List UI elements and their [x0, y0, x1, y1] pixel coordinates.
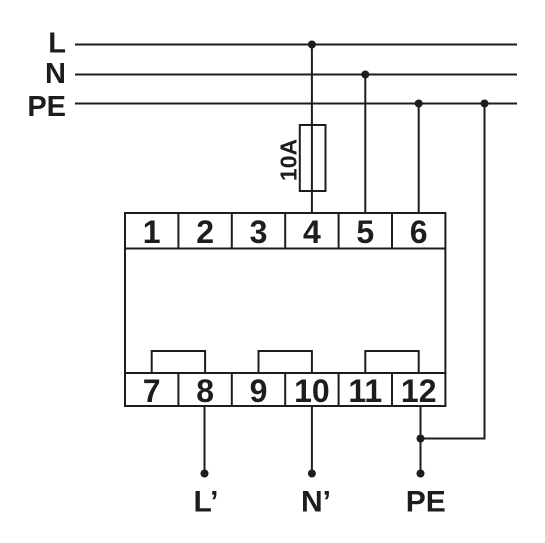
node: junction of N line and drop	[361, 71, 369, 79]
svg-text:8: 8	[196, 373, 214, 409]
terminal strip: top row frame	[125, 213, 445, 249]
wire: drop from L line through fuse to terminal 4	[311, 45, 313, 214]
svg-text:2: 2	[196, 214, 214, 250]
node: junction of L line and fuse drop	[308, 41, 316, 49]
node: junction of PE line and right-side drop	[481, 100, 489, 108]
wire: L' output stub from terminal 8	[204, 406, 206, 474]
svg-text:6: 6	[410, 214, 428, 250]
svg-text:10: 10	[294, 373, 330, 409]
wire: PE supply line	[75, 103, 517, 105]
wire: L supply line	[75, 44, 517, 46]
svg-text:L’: L’	[193, 485, 218, 518]
jumper wire terminals 9-10	[259, 351, 312, 373]
svg-text:N’: N’	[301, 485, 331, 518]
svg-text:9: 9	[250, 373, 268, 409]
wire: drop from PE line to terminal 6	[418, 104, 420, 214]
wire: drop from N line to terminal 5	[364, 75, 366, 214]
terminal strip: bottom row frame	[125, 373, 445, 406]
svg-text:L: L	[48, 27, 66, 59]
svg-text:3: 3	[250, 214, 268, 250]
node: junction of PE line and terminal-6 drop	[415, 100, 423, 108]
svg-text:11: 11	[348, 373, 382, 409]
wire: N supply line	[75, 74, 517, 76]
jumper wire terminals 7-8	[152, 351, 205, 373]
wire: PE right-side drop to output	[420, 104, 485, 439]
svg-text:5: 5	[356, 214, 374, 250]
node: L' output terminal	[201, 470, 209, 478]
svg-text:4: 4	[303, 214, 321, 250]
svg-text:12: 12	[401, 373, 437, 409]
svg-text:PE: PE	[406, 485, 446, 518]
node: N' output terminal	[308, 470, 316, 478]
svg-text:N: N	[45, 58, 66, 90]
svg-text:7: 7	[143, 373, 161, 409]
svg-text:PE: PE	[27, 91, 66, 123]
device body outline (left and right sides)	[124, 249, 126, 374]
svg-text:1: 1	[143, 214, 161, 250]
jumper wire terminals 11-12	[365, 351, 418, 373]
wire: N' output stub from terminal 10	[311, 406, 313, 474]
node: PE output terminal	[417, 470, 425, 478]
node: junction of terminal-12 stub and right-side PE drop	[417, 435, 425, 443]
wire: PE output stub from terminal 12	[420, 406, 422, 474]
svg-text:10A: 10A	[276, 139, 302, 181]
fuse F1	[300, 125, 326, 191]
